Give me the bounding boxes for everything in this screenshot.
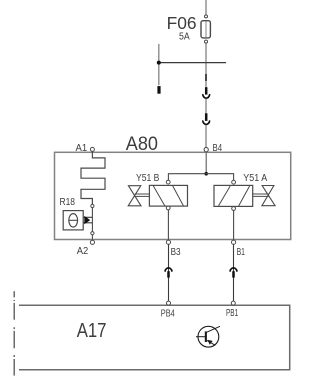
svg-text:Y51 A: Y51 A <box>243 173 267 184</box>
svg-text:B3: B3 <box>171 247 181 258</box>
pin PB4 terminal circle <box>167 301 171 305</box>
fuse F06 top terminal circle <box>205 15 208 18</box>
pin B4 terminal circle <box>204 148 208 152</box>
wire colour band <box>205 74 207 81</box>
fuse F06 body <box>201 21 210 38</box>
wire: B3 to PB4 <box>168 244 170 300</box>
svg-text:B1: B1 <box>237 247 246 258</box>
A17 boundary (dash-dot, unit continues) <box>13 291 15 375</box>
wire between arrows <box>205 99 207 113</box>
wire: B4 into box <box>205 152 207 174</box>
ground bus line <box>159 62 226 64</box>
pin A1 terminal circle <box>90 147 94 151</box>
wire: fuse to node B4 <box>205 43 207 87</box>
wire: Y51 B to pin B3 <box>167 210 169 240</box>
ECU A17 box <box>19 305 290 370</box>
svg-text:PB4: PB4 <box>161 308 175 319</box>
sensor node circle (bottom) <box>91 232 94 235</box>
connection arrow (up) left <box>165 268 172 278</box>
solenoid valve Y51 A <box>214 180 275 210</box>
connection arrow (up) right <box>230 268 237 278</box>
pin PB1 terminal circle <box>231 301 235 305</box>
connection arrow (down) 2 <box>203 113 210 124</box>
pin A2 terminal circle <box>90 240 94 244</box>
connection arrow (down) 1 <box>203 87 210 98</box>
wire: feed split to both valves <box>168 174 233 181</box>
wire: left drop from bus <box>158 44 160 85</box>
terminal bar (wire continues elsewhere) <box>157 86 160 94</box>
wire: sensor lead <box>91 208 93 232</box>
svg-text:5A: 5A <box>179 32 190 43</box>
control unit A80 box <box>55 152 291 239</box>
svg-text:A80: A80 <box>126 133 158 155</box>
wire: B1 to PB1 <box>233 244 235 300</box>
pin B1 terminal circle <box>232 240 236 244</box>
solenoid valve Y51 B <box>128 180 187 210</box>
wire: supply feed into fuse <box>205 0 207 15</box>
electronics symbol (transistor) <box>196 326 220 347</box>
svg-text:A2: A2 <box>77 246 89 257</box>
svg-text:A17: A17 <box>77 319 107 342</box>
svg-text:R18: R18 <box>60 197 76 208</box>
wire: to pin A2 <box>91 235 93 240</box>
junction dot <box>157 61 161 65</box>
temperature sensor R18 body <box>63 211 83 230</box>
sensor action arrow <box>84 216 93 224</box>
sensor theta symbol <box>69 214 78 227</box>
pin B3 terminal circle <box>166 240 170 244</box>
sensor node circle (top) <box>91 204 94 207</box>
heater element (meander) <box>81 151 105 204</box>
wire: Y51 A to pin B1 <box>233 210 235 240</box>
svg-text:A1: A1 <box>76 143 88 154</box>
wire: arrow to B4 <box>205 125 207 148</box>
fuse F06 bottom terminal circle <box>205 40 208 43</box>
junction dot <box>204 172 208 176</box>
svg-text:Y51 B: Y51 B <box>136 173 160 184</box>
svg-text:F06: F06 <box>167 13 197 33</box>
svg-text:PB1: PB1 <box>226 308 238 319</box>
